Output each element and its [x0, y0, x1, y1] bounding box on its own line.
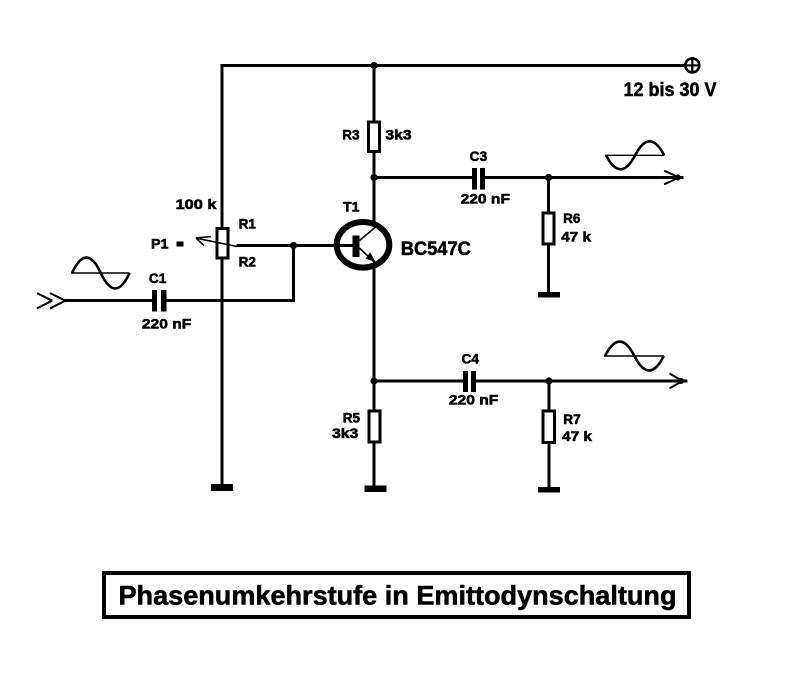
- resistor R3 body: [369, 122, 380, 152]
- resistor R7 body: [543, 411, 555, 443]
- ground (left, below P1): [211, 484, 233, 491]
- input signal sine symbol: [71, 258, 130, 289]
- wire emitter node to C4: [374, 380, 463, 383]
- svg-text:R7: R7: [563, 412, 581, 427]
- resistor R5 body: [369, 411, 380, 442]
- wire C1 to riser: [167, 299, 296, 302]
- svg-text:220 nF: 220 nF: [142, 317, 191, 332]
- wire collector node to C3: [374, 176, 472, 179]
- svg-text:T1: T1: [343, 200, 360, 215]
- svg-text:R3: R3: [342, 128, 360, 143]
- svg-text:BC547C: BC547C: [401, 239, 471, 260]
- node dot output1 / R6: [545, 174, 552, 181]
- svg-text:Phasenumkehrstufe in Emittodyn: Phasenumkehrstufe in Emittodynschaltung: [119, 581, 677, 611]
- wire emitter down to row2: [373, 266, 376, 411]
- svg-text:C4: C4: [462, 351, 480, 366]
- potentiometer P1 body: [217, 229, 228, 259]
- input arrow: [37, 293, 65, 308]
- wire base row (wiper junction to T1 base): [237, 244, 354, 247]
- capacitor C4: [463, 371, 476, 392]
- ground (below R5): [365, 486, 387, 493]
- svg-text:P1: P1: [151, 237, 169, 252]
- wire top supply rail: [221, 64, 685, 67]
- node dot at rail / collector branch: [370, 62, 377, 69]
- wire R6 to ground: [547, 246, 550, 294]
- svg-text:R2: R2: [239, 255, 256, 270]
- output 1 arrow head: [664, 171, 681, 185]
- wire R3 to collector node / transistor: [373, 153, 376, 223]
- svg-text:R5: R5: [343, 411, 361, 426]
- capacitor C3: [472, 168, 485, 190]
- wire left vertical lower (P1 to ground): [221, 259, 224, 486]
- svg-text:47 k: 47 k: [562, 429, 593, 444]
- svg-text:R6: R6: [563, 211, 581, 226]
- wire C4 to output 2 arrow: [476, 380, 688, 383]
- P1 tick square: [177, 242, 184, 247]
- resistor R6 body: [543, 213, 554, 244]
- node dot emitter / C4 branch: [370, 377, 377, 384]
- wire input to C1: [64, 299, 152, 302]
- wire collector branch upper (rail to R3): [373, 64, 376, 122]
- output 2 arrow head: [670, 374, 685, 389]
- ground (below R7): [538, 487, 560, 493]
- svg-text:100 k: 100 k: [176, 197, 218, 212]
- svg-text:220 nF: 220 nF: [461, 192, 510, 207]
- title box: [104, 573, 689, 617]
- wire left vertical upper (rail to P1): [221, 64, 224, 228]
- ground (below R6): [538, 292, 560, 298]
- node dot collector / C3 branch: [370, 174, 377, 181]
- wire R7 to ground: [548, 443, 551, 488]
- capacitor C1: [152, 290, 167, 312]
- svg-text:220 nF: 220 nF: [449, 393, 498, 408]
- output 2 signal sine symbol: [604, 342, 664, 371]
- output 1 signal sine symbol (inverted): [605, 141, 665, 169]
- wire riser from C1 line up to base line: [292, 246, 295, 303]
- svg-text:47 k: 47 k: [561, 229, 592, 244]
- svg-text:C3: C3: [470, 149, 488, 164]
- node dot base/C1 riser junction: [290, 242, 297, 249]
- potentiometer wiper arrow: [196, 237, 237, 247]
- wire R5 to ground: [373, 443, 376, 486]
- transistor T1: [337, 222, 390, 268]
- svg-text:R1: R1: [239, 217, 257, 232]
- wire C3 to output 1 arrow: [485, 176, 684, 179]
- svg-text:12 bis 30 V: 12 bis 30 V: [624, 80, 717, 101]
- wire R6 branch down: [547, 178, 550, 214]
- svg-text:3k3: 3k3: [332, 426, 359, 441]
- svg-text:C1: C1: [149, 271, 167, 286]
- wire R7 branch down: [548, 381, 551, 411]
- node dot output2 / R7: [545, 377, 552, 384]
- power supply terminal symbol: [685, 58, 699, 72]
- svg-text:3k3: 3k3: [385, 128, 412, 143]
